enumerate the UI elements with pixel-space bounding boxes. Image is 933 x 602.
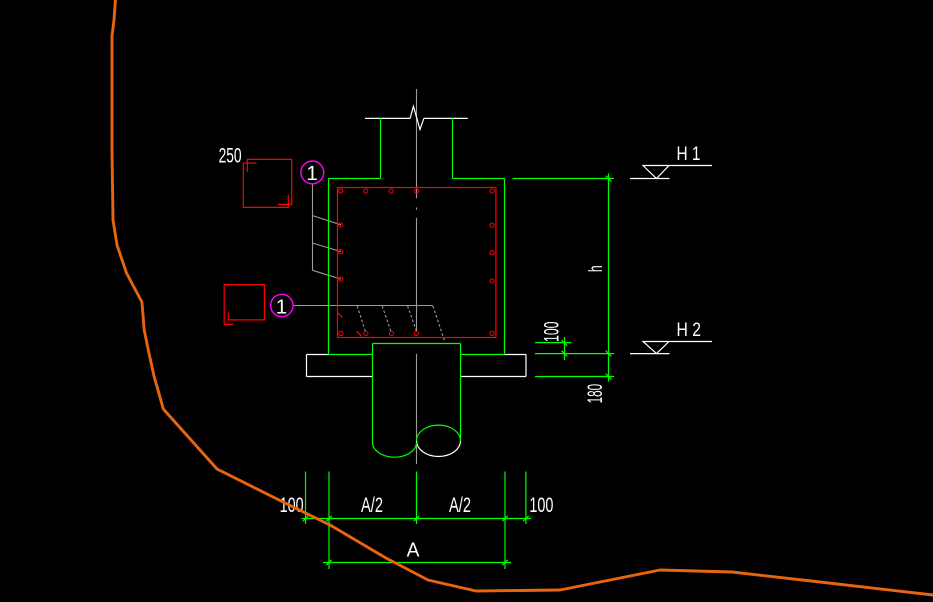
svg-text:A/2: A/2 <box>361 494 383 517</box>
svg-text:H 2: H 2 <box>677 319 702 341</box>
svg-text:100: 100 <box>539 321 563 342</box>
svg-text:H 1: H 1 <box>677 143 701 165</box>
svg-text:h: h <box>586 265 607 272</box>
svg-text:A: A <box>407 539 420 561</box>
svg-text:250: 250 <box>219 145 242 168</box>
svg-text:1: 1 <box>306 162 317 185</box>
svg-text:1: 1 <box>276 295 287 318</box>
svg-text:180: 180 <box>583 384 607 404</box>
svg-text:100: 100 <box>529 494 553 517</box>
svg-text:A/2: A/2 <box>449 494 471 517</box>
